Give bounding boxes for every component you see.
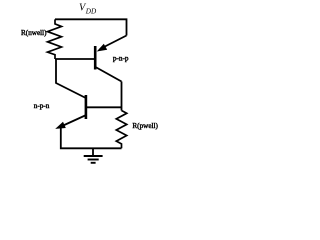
- ground: [84, 148, 103, 163]
- label R(pwell): [132, 122, 158, 130]
- resistor R(pwell): [116, 111, 126, 149]
- wire VDD top rail: [55, 19, 127, 35]
- svg-text:R(pwell): R(pwell): [132, 122, 158, 130]
- svg-text:R(nwell): R(nwell): [21, 29, 47, 37]
- svg-text:n-p-n: n-p-n: [34, 102, 50, 110]
- label R(nwell): [21, 29, 47, 37]
- label p-n-p: [113, 54, 129, 62]
- power net VDD label: [79, 3, 97, 16]
- resistor R(nwell): [48, 19, 62, 59]
- label n-p-n: [34, 102, 50, 110]
- wire npn base to node B: [86, 106, 122, 108]
- svg-text:DD: DD: [85, 8, 97, 16]
- wire pnp collector drop: [121, 82, 123, 111]
- wire npn emitter to ground rail: [61, 128, 122, 148]
- transistor Q1 p-n-p: [95, 36, 126, 82]
- wire node A drop to npn collector: [56, 59, 86, 98]
- svg-text:p-n-p: p-n-p: [113, 54, 129, 62]
- wire node A (R(nwell) bottom to pnp base): [55, 58, 95, 60]
- transistor Q2 n-p-n: [55, 95, 86, 129]
